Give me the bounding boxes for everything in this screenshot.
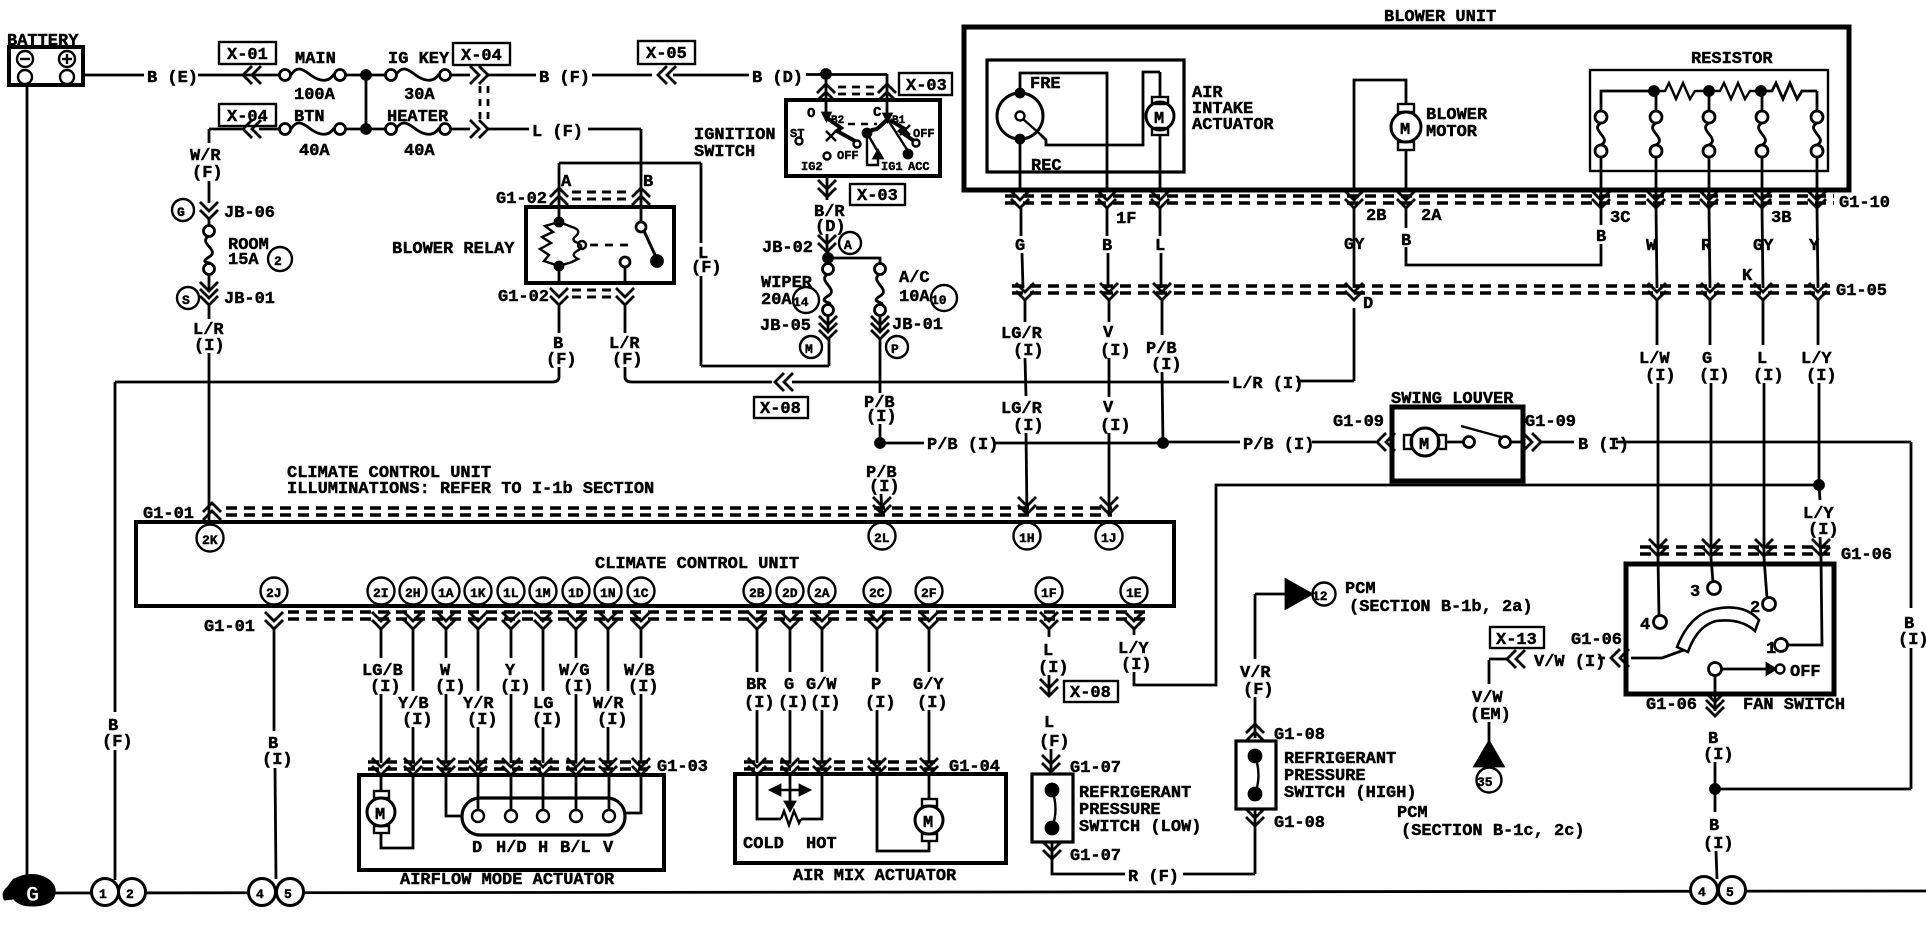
svg-text:G1-05: G1-05: [1836, 282, 1887, 301]
svg-text:10A: 10A: [899, 288, 930, 307]
svg-text:BLOWER RELAY: BLOWER RELAY: [392, 240, 515, 259]
svg-text:G: G: [1015, 237, 1025, 256]
connector JB-01 P: [871, 315, 943, 358]
PCM arrow 12: [1255, 580, 1533, 617]
wire 2I LG/B: [362, 629, 403, 763]
svg-text:4: 4: [1698, 885, 1706, 900]
svg-text:2K: 2K: [202, 533, 218, 548]
svg-text:B/L: B/L: [560, 839, 591, 858]
fuse WIPER 20A: [761, 258, 834, 316]
wire L/R(I) vertical: [193, 305, 225, 524]
wire L/Y below junction: [1787, 485, 1839, 645]
wire 1E L/Y loop: [1118, 485, 1819, 685]
fan switch box: [1626, 564, 1834, 694]
svg-text:1C: 1C: [633, 586, 649, 601]
svg-text:2: 2: [274, 254, 282, 269]
pin 1J: [1096, 523, 1123, 550]
svg-text:SWITCH (HIGH): SWITCH (HIGH): [1284, 784, 1417, 803]
svg-text:G: G: [784, 676, 794, 695]
svg-text:2L: 2L: [874, 531, 890, 546]
svg-text:M: M: [375, 806, 385, 825]
PCM label bottom: [1397, 804, 1585, 841]
svg-text:COLD: COLD: [743, 835, 784, 854]
svg-text:CLIMATE CONTROL UNIT: CLIMATE CONTROL UNIT: [595, 555, 799, 574]
svg-text:SWITCH (LOW): SWITCH (LOW): [1079, 818, 1201, 837]
svg-text:P/B (I): P/B (I): [1243, 436, 1314, 455]
svg-text:G1-02: G1-02: [498, 288, 549, 307]
wire 2C P: [865, 629, 896, 763]
svg-text:X-03: X-03: [906, 77, 947, 96]
wire 1M LG: [532, 629, 563, 763]
wire L(F) drop to relay B: [640, 129, 643, 163]
swing louver: [1391, 390, 1523, 481]
svg-text:12: 12: [1312, 589, 1328, 604]
svg-text:4: 4: [1640, 616, 1650, 635]
connector row G1-01 top: [143, 503, 1112, 524]
node B(D) junction: [822, 70, 831, 79]
climate control unit heading: [287, 464, 654, 499]
wire B(I) to pins45: [1703, 789, 1734, 879]
wire B(D): [673, 69, 887, 88]
wire blower motor bottom: [1405, 150, 1408, 190]
connector G1-06 bottom: [1646, 676, 1845, 716]
wire junction vertical: [365, 75, 368, 129]
svg-text:1A: 1A: [438, 586, 454, 601]
wire relay top bracket: [559, 162, 701, 165]
svg-text:(I): (I): [370, 678, 401, 697]
svg-text:2A: 2A: [814, 586, 830, 601]
svg-text:K: K: [1742, 267, 1753, 286]
svg-text:L/R (I): L/R (I): [1232, 375, 1303, 394]
svg-text:100A: 100A: [294, 86, 336, 105]
svg-text:X-04: X-04: [461, 47, 502, 66]
svg-text:JB-05: JB-05: [760, 317, 811, 336]
wire W down to fan4: [1639, 300, 1676, 616]
svg-text:IG1: IG1: [881, 160, 903, 174]
wire 3C to 2A link: [1406, 208, 1601, 265]
fuse ROOM 15A: [204, 219, 293, 275]
svg-text:O: O: [807, 106, 815, 122]
pin labels G1-10: [1116, 207, 1791, 229]
wire L(F) bracket right: [691, 163, 829, 366]
svg-text:(I): (I): [1038, 659, 1069, 678]
airflow motor M: [367, 775, 413, 848]
svg-text:G1-08: G1-08: [1274, 814, 1325, 833]
svg-text:X-13: X-13: [1496, 631, 1537, 650]
connector X-03 box top: [899, 73, 952, 96]
svg-text:2: 2: [126, 887, 134, 902]
wire R down to fan3: [1699, 300, 1730, 582]
wire FRE top to B: [1020, 73, 1107, 190]
wire GY2 down: [1742, 208, 1763, 288]
svg-text:(I): (I): [1013, 417, 1044, 436]
wire BTN junction: [345, 128, 386, 131]
bottom ground bus: [50, 891, 1926, 893]
airflow mode actuator box: [359, 775, 664, 890]
pin 2K: [197, 525, 224, 552]
airflow pill wires: [446, 775, 641, 816]
node JB-02 junction: [824, 254, 833, 263]
wire W/R corner: [209, 128, 242, 131]
svg-text:ACC: ACC: [908, 160, 930, 174]
wire 2B BR: [744, 629, 775, 763]
svg-text:D: D: [472, 839, 482, 858]
fan switch OFF pin: [1709, 663, 1821, 683]
svg-text:D: D: [1363, 295, 1373, 314]
wire 2A G/W: [806, 629, 841, 763]
svg-text:(I): (I): [402, 711, 433, 730]
svg-text:IG KEY: IG KEY: [388, 50, 450, 69]
svg-text:G1-09: G1-09: [1333, 413, 1384, 432]
air intake switch FRE/REC: [997, 75, 1062, 176]
svg-text:X-03: X-03: [857, 187, 898, 206]
svg-text:35: 35: [1477, 775, 1493, 790]
node junction top: [362, 71, 371, 80]
svg-text:P/B (I): P/B (I): [927, 436, 998, 455]
connector circles 1 2: [92, 879, 146, 906]
air intake actuator box: [987, 60, 1274, 172]
connector G1-02 bottom: [498, 267, 634, 307]
svg-text:S: S: [182, 293, 190, 308]
svg-text:M: M: [805, 342, 813, 357]
airflow pill labels: [472, 839, 614, 858]
svg-text:(SECTION B-1c, 2c): (SECTION B-1c, 2c): [1401, 822, 1585, 841]
wire 2J B(I): [262, 629, 293, 879]
svg-text:A: A: [844, 238, 852, 253]
wire relay pin B drop: [640, 163, 643, 222]
svg-text:(F): (F): [612, 351, 643, 370]
svg-text:B (D): B (D): [752, 69, 803, 88]
svg-text:(I): (I): [1808, 521, 1839, 540]
resistor network: [1601, 83, 1817, 112]
svg-text:1J: 1J: [1101, 531, 1117, 546]
svg-text:V: V: [1103, 324, 1114, 343]
wire into ignition O: [817, 74, 835, 101]
connector S JB-01: [177, 274, 275, 309]
pin 2L: [869, 523, 896, 550]
wire V/W(EM): [1470, 660, 1511, 744]
climate control unit box: [136, 522, 1174, 606]
connector G JB-06: [172, 199, 275, 223]
connector G1-09 left: [1333, 413, 1395, 451]
svg-text:2F: 2F: [921, 586, 937, 601]
svg-text:FAN SWITCH: FAN SWITCH: [1743, 696, 1845, 715]
connector JB-02 A: [762, 232, 861, 258]
svg-text:G1-06: G1-06: [1571, 631, 1622, 650]
wire B(I) right vertical: [1715, 442, 1926, 789]
svg-text:A: A: [561, 173, 572, 192]
wire B/R(D): [814, 203, 846, 258]
svg-text:2H: 2H: [405, 586, 421, 601]
connector X-03 dashes: [838, 87, 876, 94]
svg-text:M: M: [1419, 436, 1429, 455]
svg-text:G/Y: G/Y: [913, 676, 944, 695]
ignition internals: [790, 100, 935, 174]
svg-text:FRE: FRE: [1030, 75, 1061, 94]
svg-text:JB-01: JB-01: [892, 316, 943, 335]
wire 1L Y: [500, 629, 531, 763]
svg-text:G1-07: G1-07: [1070, 847, 1121, 866]
wire into ignition C: [878, 74, 896, 101]
wire to AC fuse: [828, 258, 880, 264]
relay coil: [540, 218, 634, 270]
svg-text:30A: 30A: [404, 86, 435, 105]
node fan B junction: [1711, 785, 1720, 794]
svg-text:IG2: IG2: [801, 160, 823, 174]
blower relay box: [392, 207, 674, 283]
fan switch wiper wire: [1631, 650, 1684, 658]
connector row G1-04: [744, 758, 1000, 777]
pin 1H: [1014, 523, 1041, 550]
resistor leads out: [1601, 157, 1817, 208]
svg-text:(I): (I): [1100, 342, 1131, 361]
svg-text:X-08: X-08: [1070, 684, 1111, 703]
wire GY/D down to L/R: [1353, 308, 1356, 381]
wire B(I) from louver: [1540, 436, 1911, 455]
wire B(E): [83, 69, 280, 88]
svg-text:HOT: HOT: [806, 835, 837, 854]
svg-text:(I): (I): [1753, 367, 1784, 386]
svg-text:3: 3: [1690, 583, 1700, 602]
wire B(F) left vertical: [102, 382, 133, 880]
wire 1F L(I): [1038, 629, 1069, 696]
svg-text:BLOWER UNIT: BLOWER UNIT: [1384, 8, 1496, 27]
connector G1-09 right: [1523, 413, 1576, 451]
svg-text:G1-09: G1-09: [1525, 413, 1576, 432]
svg-text:1D: 1D: [568, 586, 584, 601]
wire 1N W/R: [593, 629, 628, 763]
svg-text:20A: 20A: [761, 291, 792, 310]
wire FRE arm to motor: [1040, 72, 1160, 145]
svg-text:M: M: [1400, 121, 1410, 140]
svg-text:40A: 40A: [404, 142, 435, 161]
wire 1K Y/R: [463, 629, 498, 763]
air mix potentiometer: [743, 774, 837, 854]
svg-text:C: C: [873, 105, 882, 121]
connector X-08 left: [754, 373, 808, 419]
svg-text:L: L: [1044, 714, 1054, 733]
wire L down: [1160, 208, 1161, 288]
svg-text:B (E): B (E): [147, 69, 198, 88]
wire V/W(I): [1489, 649, 1629, 672]
connector X-13: [1490, 627, 1544, 650]
wire V down to 1J: [1100, 300, 1131, 516]
connector X-01: [219, 42, 276, 84]
connector circles 4 5 right: [1691, 877, 1746, 904]
wire 1A W: [435, 629, 466, 763]
wire L/R(F) relay output: [609, 305, 772, 382]
svg-text:(I): (I): [1806, 367, 1837, 386]
airflow position pill: [462, 798, 625, 835]
svg-text:(I): (I): [1699, 367, 1730, 386]
svg-text:B: B: [643, 173, 653, 192]
connector G1-07 top: [1042, 755, 1121, 778]
svg-text:OFF: OFF: [913, 127, 935, 141]
svg-text:G/W: G/W: [806, 676, 837, 695]
svg-text:1M: 1M: [535, 586, 551, 601]
connector G1-07 bottom: [1043, 842, 1121, 866]
connector X-03 bottom: [818, 176, 905, 206]
svg-text:2B: 2B: [749, 586, 765, 601]
fuse HEATER 40A: [386, 108, 451, 161]
svg-text:1H: 1H: [1019, 531, 1035, 546]
connector G1-06 left: [1571, 631, 1622, 650]
svg-text:RESISTOR: RESISTOR: [1691, 50, 1773, 69]
svg-text:G1-06: G1-06: [1646, 696, 1697, 715]
svg-text:G: G: [177, 205, 185, 220]
wire B(I) fan: [1703, 730, 1734, 789]
svg-text:X-08: X-08: [760, 400, 801, 419]
svg-text:X-05: X-05: [646, 45, 687, 64]
svg-text:15A: 15A: [228, 251, 259, 270]
wire P/B(I) drop to 2L: [866, 464, 900, 516]
wire Y down: [1817, 208, 1818, 288]
svg-text:(SECTION B-1b, 2a): (SECTION B-1b, 2a): [1349, 598, 1533, 617]
wire GY down to fan2: [1753, 300, 1784, 598]
svg-text:(I): (I): [262, 751, 293, 770]
ignition switch box: [694, 100, 940, 176]
svg-text:PCM: PCM: [1397, 804, 1428, 823]
svg-text:A/C: A/C: [899, 269, 930, 288]
svg-text:5: 5: [284, 887, 292, 902]
connector X-04 row2 chevron: [450, 120, 488, 138]
node L/Y junction: [1815, 481, 1824, 490]
svg-text:1L: 1L: [503, 586, 519, 601]
wire L/R(I) horizontal: [792, 375, 1354, 394]
fuse BTN 40A: [259, 108, 346, 161]
svg-text:2D: 2D: [782, 586, 798, 601]
svg-text:OFF: OFF: [837, 149, 859, 163]
svg-text:40A: 40A: [299, 142, 330, 161]
svg-text:M: M: [923, 814, 933, 833]
connector JB-05 M: [760, 315, 837, 358]
svg-text:JB-06: JB-06: [224, 204, 275, 223]
wire G down: [1021, 208, 1023, 288]
air mix motor M: [877, 774, 943, 851]
svg-text:JB-01: JB-01: [224, 290, 275, 309]
air mix actuator box: [735, 774, 1006, 886]
svg-text:G1-06: G1-06: [1841, 546, 1892, 565]
svg-text:(I): (I): [744, 694, 775, 713]
connector circles 4 5 left: [249, 879, 304, 906]
wire P/B vertical from A/C fuse: [864, 339, 897, 443]
svg-text:V: V: [1103, 399, 1114, 418]
bottom pins row: [261, 578, 1148, 605]
wire 2F G/Y: [913, 629, 948, 763]
wire P/B L down: [1146, 300, 1182, 443]
svg-text:HEATER: HEATER: [387, 108, 449, 127]
svg-text:(I): (I): [810, 694, 841, 713]
blower unit box: [964, 8, 1849, 190]
svg-text:5: 5: [1726, 885, 1734, 900]
wire battery ground vertical: [26, 85, 29, 878]
svg-text:(I): (I): [1121, 656, 1152, 675]
wire G REC down: [1019, 143, 1022, 190]
svg-text:(F): (F): [102, 733, 133, 752]
svg-text:1E: 1E: [1126, 586, 1142, 601]
fuse IG KEY 30A: [386, 50, 451, 105]
svg-text:(F): (F): [1243, 681, 1274, 700]
svg-text:4: 4: [256, 887, 264, 902]
svg-text:(I): (I): [563, 678, 594, 697]
svg-text:H: H: [538, 839, 548, 858]
svg-text:(I): (I): [628, 678, 659, 697]
svg-text:V: V: [603, 839, 614, 858]
svg-text:M: M: [1154, 110, 1164, 129]
svg-text:(F): (F): [546, 351, 577, 370]
svg-text:G1-01: G1-01: [204, 618, 255, 637]
wire W down: [1656, 208, 1657, 288]
svg-text:G1-07: G1-07: [1070, 759, 1121, 778]
svg-text:1K: 1K: [470, 586, 486, 601]
wire V/R: [1240, 594, 1274, 738]
wire P/B(I) horizontal: [880, 436, 1163, 455]
wire Y L/Y down: [1801, 300, 1837, 485]
svg-text:(I): (I): [1703, 746, 1734, 765]
svg-text:(I): (I): [917, 694, 948, 713]
fan switch pins: [1640, 582, 1788, 660]
wire blower motor top: [1354, 80, 1406, 190]
wire 1C W/B: [624, 629, 659, 763]
svg-text:(I): (I): [500, 678, 531, 697]
svg-text:MOTOR: MOTOR: [1426, 123, 1478, 142]
wire MAIN to IGKEY: [345, 74, 386, 77]
connector G1-02 top: [496, 188, 650, 209]
svg-text:(I): (I): [1645, 367, 1676, 386]
connector row G1-01 bottom: [204, 612, 1145, 637]
svg-text:(I): (I): [1703, 835, 1734, 854]
svg-text:G1-08: G1-08: [1274, 726, 1325, 745]
wire 2D G: [778, 629, 809, 763]
svg-text:(I): (I): [1151, 356, 1182, 375]
svg-text:(I): (I): [532, 711, 563, 730]
svg-text:REC: REC: [1031, 157, 1062, 176]
resistor box: [1590, 50, 1828, 171]
svg-text:(F): (F): [1039, 733, 1070, 752]
svg-text:(I): (I): [467, 711, 498, 730]
svg-text:(I): (I): [1898, 631, 1926, 650]
svg-text:2C: 2C: [869, 586, 885, 601]
wire L(F) low: [1039, 714, 1070, 772]
svg-text:ACTUATOR: ACTUATOR: [1192, 116, 1274, 135]
svg-text:B (I): B (I): [1578, 436, 1629, 455]
wire B down: [1107, 208, 1108, 288]
svg-text:G: G: [26, 883, 39, 908]
connector X-04 second: [219, 104, 276, 138]
svg-text:1F: 1F: [1041, 586, 1057, 601]
fan switch rotor crescent: [1677, 607, 1759, 652]
svg-text:P: P: [871, 676, 881, 695]
svg-text:(I): (I): [865, 694, 896, 713]
svg-text:(I): (I): [597, 711, 628, 730]
svg-text:(D): (D): [815, 218, 846, 237]
svg-text:B: B: [1709, 817, 1719, 836]
PCM arrow 35: [1475, 742, 1503, 793]
svg-text:G1-10: G1-10: [1839, 194, 1890, 213]
svg-text:X-01: X-01: [227, 46, 268, 65]
svg-text:(I): (I): [778, 694, 809, 713]
wire W/R(F) vertical: [190, 129, 223, 203]
svg-text:3C: 3C: [1610, 209, 1630, 228]
connector row G1-10: [1005, 191, 1890, 213]
wire 2H Y/B: [398, 629, 433, 763]
svg-text:V/W (I): V/W (I): [1534, 653, 1605, 672]
svg-text:(I): (I): [869, 478, 900, 497]
wire B(F): [488, 69, 652, 88]
connector X-04 top: [450, 43, 510, 120]
ground G: [4, 875, 54, 908]
wire B(F) relay output: [115, 305, 577, 382]
